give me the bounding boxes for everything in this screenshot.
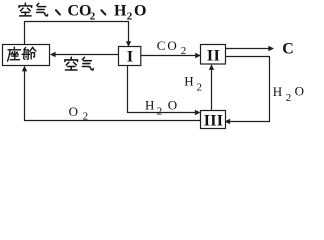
box III: [201, 111, 226, 129]
wire I right to II (CO2): [141, 55, 200, 57]
svg-text:2: 2: [286, 92, 292, 104]
wire III top to II bottom (H2): [211, 66, 213, 111]
svg-text:2: 2: [181, 45, 187, 57]
svg-text:O: O: [168, 97, 177, 112]
box II: [201, 45, 226, 65]
svg-text:C: C: [157, 38, 166, 53]
arrowhead up into II (H2): [209, 64, 214, 70]
svg-text:H: H: [273, 84, 282, 99]
wire II right to C: [226, 48, 273, 50]
svg-text:2: 2: [83, 110, 89, 122]
wire II right lower, down, left into III (H2O): [226, 57, 270, 122]
label top 空气、CO2、H2O: [19, 3, 146, 23]
label H2O (bottom, I to III): [145, 97, 177, 117]
label 座舱: [8, 47, 36, 61]
svg-text:I: I: [127, 49, 133, 66]
wire I bottom down, right into III (H2O): [128, 66, 200, 113]
svg-text:H: H: [184, 74, 193, 89]
label H2O (right, II to III): [273, 84, 304, 104]
arrowhead left into cabin (air): [50, 52, 56, 57]
svg-text:O: O: [134, 3, 146, 20]
arrowhead right into III (H2O from I): [195, 110, 201, 115]
svg-text:III: III: [204, 113, 224, 130]
wire cabin-top up, over, down into I: [25, 22, 129, 46]
svg-text:O: O: [69, 104, 78, 119]
svg-text:2: 2: [157, 105, 163, 117]
svg-text:O: O: [167, 38, 176, 53]
wire III left to bottom line, up into cabin (O2): [25, 67, 201, 121]
svg-text:CO: CO: [68, 3, 92, 20]
arrowhead left into III right side (H2O from II): [225, 119, 231, 124]
svg-text:2: 2: [127, 10, 133, 22]
box I: [119, 47, 141, 66]
arrowhead up into cabin bottom (O2): [22, 66, 27, 72]
label H2 (III to II): [184, 74, 202, 94]
label C O2 (I to II): [157, 38, 187, 57]
wire I left to cabin (air return): [51, 54, 119, 56]
svg-text:O: O: [295, 84, 304, 99]
svg-text:II: II: [207, 48, 220, 65]
svg-text:2: 2: [197, 81, 203, 93]
arrowhead right to C: [268, 46, 274, 51]
label O2 (III to cabin): [69, 104, 89, 122]
svg-text:C: C: [282, 40, 294, 57]
box cabin 座舱: [3, 45, 50, 66]
svg-text:2: 2: [90, 10, 96, 22]
label 空气 (air return): [65, 57, 93, 70]
arrowhead right into II (CO2): [195, 53, 201, 58]
svg-text:H: H: [114, 3, 127, 20]
svg-text:H: H: [145, 98, 154, 113]
arrowhead down into I: [126, 41, 131, 46]
